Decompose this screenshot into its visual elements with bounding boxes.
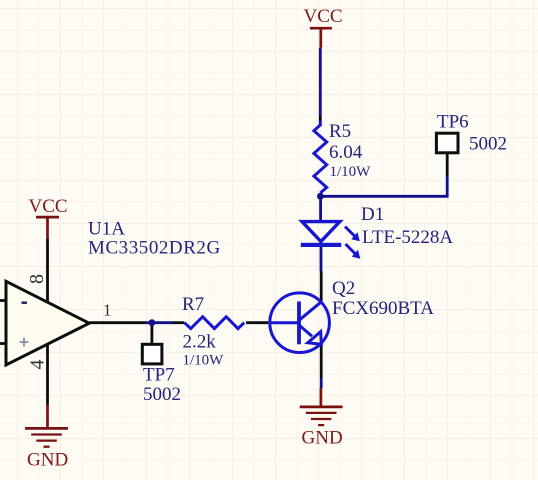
svg-text:D1: D1 (361, 204, 384, 225)
svg-text:GND: GND (302, 428, 343, 449)
svg-text:MC33502DR2G: MC33502DR2G (88, 238, 221, 259)
svg-text:6.04: 6.04 (329, 142, 363, 163)
svg-text:VCC: VCC (304, 6, 343, 27)
svg-text:2.2k: 2.2k (183, 332, 217, 353)
svg-text:1/10W: 1/10W (330, 164, 372, 180)
svg-text:TP7: TP7 (143, 365, 175, 386)
svg-text:1/10W: 1/10W (183, 353, 225, 369)
svg-text:5002: 5002 (143, 384, 181, 405)
svg-text:8: 8 (26, 274, 48, 284)
svg-text:FCX690BTA: FCX690BTA (332, 298, 434, 319)
svg-text:LTE-5228A: LTE-5228A (362, 227, 453, 248)
svg-text:Q2: Q2 (332, 278, 355, 299)
svg-text:R7: R7 (182, 294, 204, 315)
svg-text:5002: 5002 (469, 134, 507, 155)
svg-text:U1A: U1A (88, 219, 125, 240)
svg-text:TP6: TP6 (437, 112, 469, 133)
svg-text:4: 4 (27, 360, 49, 370)
svg-text:R5: R5 (329, 121, 351, 142)
svg-text:VCC: VCC (29, 196, 68, 217)
svg-text:GND: GND (27, 450, 68, 471)
svg-text:1: 1 (103, 301, 112, 320)
